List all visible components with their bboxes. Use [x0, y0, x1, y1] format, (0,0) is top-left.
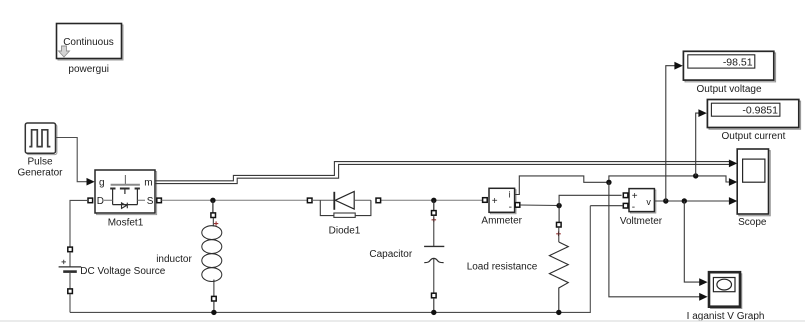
svg-text:D: D — [97, 196, 104, 207]
svg-text:m: m — [144, 177, 152, 188]
node junction capacitor top — [431, 198, 436, 203]
load resistor R — [549, 206, 568, 312]
powergui block — [57, 24, 124, 61]
inductor — [202, 213, 222, 301]
svg-text:Ammeter: Ammeter — [481, 215, 522, 226]
node junction output voltage branch — [663, 198, 668, 203]
bottom rail wire — [70, 206, 590, 313]
port S square — [157, 198, 162, 203]
wire to XY graph input 1 — [684, 201, 700, 282]
arrowhead XY input 1 — [699, 278, 707, 286]
mid rail wire S to ammeter — [161, 199, 307, 201]
voltmeter ports — [623, 193, 628, 198]
node junction ammeter signal branch — [606, 180, 611, 185]
scope block — [737, 149, 770, 216]
svg-text:I aganist V Graph: I aganist V Graph — [687, 311, 765, 322]
wire junction to inductor — [212, 200, 214, 213]
node junction inductor bottom — [211, 310, 216, 315]
arrowhead output current — [698, 109, 706, 117]
node junction output current branch — [693, 173, 698, 178]
wire junction to capacitor — [433, 200, 435, 210]
wire ammeter minus to load junction — [520, 204, 559, 207]
svg-text:Continuous: Continuous — [63, 37, 114, 48]
XY graph block — [709, 272, 742, 308]
node junction inductor top — [210, 198, 215, 203]
svg-text:Output voltage: Output voltage — [696, 84, 761, 95]
faint window edge line — [0, 320, 805, 322]
svg-text:Diode1: Diode1 — [329, 226, 361, 237]
svg-text:i: i — [509, 190, 511, 200]
arrowhead scope input 2 — [729, 178, 737, 186]
wire load junction up to voltmeter plus — [559, 195, 622, 205]
capacitor C — [424, 211, 444, 298]
svg-text:S: S — [147, 196, 154, 207]
ammeter block — [489, 188, 516, 213]
mosfet icon — [124, 175, 126, 184]
svg-text:g: g — [99, 177, 105, 188]
svg-text:Generator: Generator — [17, 168, 63, 179]
wire D to DC source — [70, 200, 88, 247]
wire to output current display — [696, 113, 700, 176]
svg-text:+: + — [492, 196, 498, 207]
svg-text:Load resistance: Load resistance — [467, 261, 538, 272]
diode D Diode1 — [307, 192, 380, 218]
svg-text:Output current: Output current — [722, 131, 786, 142]
wire capacitor to rail — [433, 298, 435, 313]
arrowhead scope input 1 — [729, 160, 737, 168]
DC voltage source — [59, 247, 82, 293]
svg-text:-98.51: -98.51 — [723, 56, 753, 68]
wire ammeter signal to XY graph input 2 — [609, 182, 700, 296]
svg-text:Scope: Scope — [738, 217, 767, 228]
wire DC source to bottom rail — [69, 294, 71, 313]
svg-text:+: + — [632, 191, 638, 202]
wire to output voltage display — [666, 66, 675, 201]
svg-text:Mosfet1: Mosfet1 — [108, 217, 144, 228]
svg-text:-: - — [632, 202, 635, 213]
svg-text:Pulse: Pulse — [27, 157, 52, 168]
svg-text:-0.9851: -0.9851 — [742, 105, 778, 117]
port D square — [88, 198, 93, 203]
arrowhead into g — [87, 178, 95, 186]
display Output current — [707, 100, 800, 130]
node junction load top — [556, 203, 561, 208]
svg-text:Capacitor: Capacitor — [369, 249, 412, 260]
arrowhead output voltage — [674, 62, 682, 70]
svg-text:DC Voltage Source: DC Voltage Source — [80, 266, 165, 277]
wire mosfet m to scope (double line) — [155, 162, 731, 184]
svg-text:v: v — [646, 197, 651, 207]
arrowhead XY input 2 — [699, 293, 707, 301]
node junction load bottom — [556, 310, 561, 315]
node junction XY graph branch — [682, 198, 687, 203]
arrowhead scope input 3 — [729, 197, 737, 205]
voltmeter block — [629, 189, 656, 213]
svg-text:powergui: powergui — [68, 64, 109, 75]
svg-text:inductor: inductor — [156, 254, 192, 265]
wire pulse generator to mosfet gate — [56, 138, 88, 182]
ammeter ports — [483, 198, 488, 203]
mosfet U Mosfet1 — [95, 170, 157, 215]
wire inductor to rail — [213, 301, 215, 312]
wire ammeter i signal — [515, 176, 729, 195]
display Output voltage — [683, 51, 775, 82]
wire voltmeter v output — [654, 200, 729, 202]
node junction capacitor bottom — [431, 310, 436, 315]
pulse generator Pulse Generator — [25, 123, 57, 155]
wire voltmeter minus to rail — [590, 205, 623, 207]
svg-text:-: - — [509, 202, 512, 213]
svg-text:Voltmeter: Voltmeter — [620, 216, 663, 227]
